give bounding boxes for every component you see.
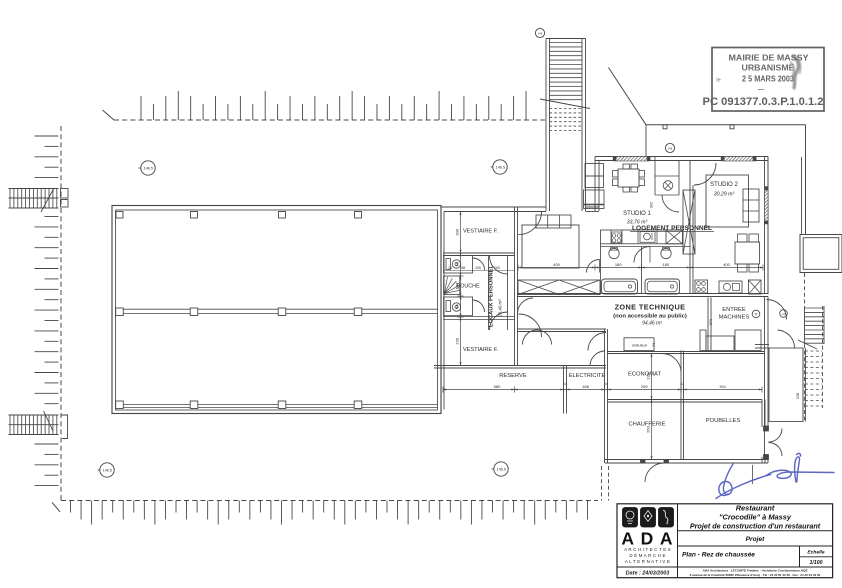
svg-text:ADA Architecture - LECOMTE Fré: ADA Architecture - LECOMTE Frédéric - Ar…: [701, 569, 808, 573]
entry wc circle: [663, 181, 673, 191]
ADA logo stamp icon 3: [659, 508, 674, 528]
svg-text:146.5: 146.5: [496, 166, 505, 170]
washbasin 1: [609, 248, 619, 258]
svg-text:146.5: 146.5: [497, 468, 506, 472]
svg-text:74: 74: [652, 343, 656, 347]
washbasin 2: [661, 248, 671, 258]
douche fan lines: [445, 290, 462, 294]
right stair dashed sides: [822, 306, 824, 408]
wall below wc2: [443, 316, 515, 318]
wardrobe with X: [683, 190, 695, 254]
svg-text:Plan - Rez de chaussée: Plan - Rez de chaussée: [682, 552, 755, 559]
svg-text:259: 259: [641, 384, 648, 389]
svg-text:D E M A R C H E: D E M A R C H E: [629, 553, 665, 558]
svg-text:14: 14: [604, 382, 608, 386]
svg-text:98: 98: [461, 266, 465, 270]
title block divider vertical: [677, 504, 679, 578]
stair treads solid: [550, 42, 583, 44]
stamp small dash: [758, 89, 764, 91]
circled symbol entree machines: [752, 310, 760, 318]
economat right wall: [680, 351, 682, 461]
svg-text:94,46 m²: 94,46 m²: [642, 321, 662, 327]
right stair dashed treads: [805, 350, 822, 352]
vestibule arc bottom: [490, 312, 508, 330]
benchmark circle 146.5 at 148,168: [141, 161, 155, 175]
site corner diagonal top-left: [103, 110, 115, 120]
reserve top wall: [434, 365, 606, 367]
corridor dashed opening: [522, 329, 552, 331]
svg-text:180: 180: [662, 262, 669, 267]
studio2 door arc: [694, 163, 716, 185]
rooms block left wall: [440, 207, 442, 414]
entry cell walls: [654, 157, 656, 196]
svg-text:"Crocodile" à Massy: "Crocodile" à Massy: [719, 513, 792, 522]
parking ticks left column: [35, 135, 59, 137]
svg-text:URBANISME: URBANISME: [742, 64, 796, 73]
svg-text:74: 74: [455, 262, 460, 267]
right walkway outer border: [802, 348, 804, 422]
hall middle beam: [116, 308, 438, 310]
wall segment left of door2: [755, 344, 769, 346]
hall middle beam posts: [116, 308, 124, 316]
hall bottom beam posts: [116, 401, 124, 409]
svg-text:VESTIAIRE F.: VESTIAIRE F.: [463, 229, 499, 235]
svg-text:14: 14: [563, 382, 567, 386]
plot diagonal line: [609, 68, 647, 125]
plot connector vertical: [645, 125, 647, 157]
svg-text:300: 300: [455, 228, 460, 235]
svg-text:146.5: 146.5: [144, 167, 153, 171]
svg-text:ZONE TECHNIQUE: ZONE TECHNIQUE: [615, 303, 686, 312]
window hatch top wall west: [616, 157, 647, 162]
svg-text:74: 74: [455, 304, 460, 309]
corridor door arc east: [588, 333, 606, 351]
hall outer wall: [112, 206, 441, 414]
stair strip walls: [545, 39, 547, 212]
corridor south wall: [517, 328, 606, 330]
zone door arc on block wall: [518, 298, 534, 314]
crosswalk diagonal upper: [41, 188, 54, 212]
right stair solid treads: [804, 306, 806, 344]
plot line tick 1: [663, 125, 667, 129]
crosswalk diagonal lower: [44, 411, 54, 431]
short line below poubelles wall: [752, 465, 754, 484]
stamp border: [712, 48, 824, 112]
svg-text:2 5 MARS 2003: 2 5 MARS 2003: [742, 75, 795, 84]
mairie stamp group: [703, 48, 825, 112]
electricite right wall: [604, 329, 606, 463]
svg-text:ELECTRICITE: ELECTRICITE: [569, 373, 606, 379]
douche cell: [444, 276, 460, 294]
title block divider below projet: [678, 545, 833, 547]
svg-text:302: 302: [650, 202, 654, 208]
south wall of south rooms: [605, 459, 768, 461]
x-box kitchen studio1: [666, 230, 683, 244]
ADA logo stamp icon 1: [623, 508, 638, 528]
benchmark small circle top of stairs: [535, 28, 544, 37]
studio2 bed: [706, 175, 749, 227]
title block outer border: [617, 504, 833, 578]
svg-text:STUDIO 2: STUDIO 2: [710, 182, 738, 188]
svg-text:14: 14: [681, 382, 685, 386]
vestibule arc top: [490, 256, 508, 274]
site dashed vertical pair near chaufferie: [601, 466, 603, 501]
terrace box top-right: [800, 235, 842, 273]
kitchen counter studio1: [601, 230, 684, 244]
dimension line horizontal south rooms: [443, 389, 762, 391]
svg-text:VESTIAIRE F.: VESTIAIRE F.: [463, 347, 499, 353]
window jamb marks right wall: [765, 187, 769, 190]
svg-text:DOUCHE: DOUCHE: [456, 284, 480, 290]
studio2 chairs: [738, 234, 748, 242]
title block divider above fine print: [617, 566, 833, 568]
svg-text:100: 100: [455, 282, 460, 289]
svg-text:Projet de construction d'un re: Projet de construction d'un restaurant: [690, 522, 821, 531]
bath door arc 1: [587, 260, 600, 273]
title block divider below project title: [678, 530, 833, 532]
stair treads dashed: [550, 108, 583, 110]
studio1 table: [618, 169, 639, 187]
svg-text:A R C H I T E C T E S: A R C H I T E C T E S: [624, 547, 671, 552]
svg-text:146: 146: [538, 32, 543, 36]
building top wall segment east of stairs: [586, 206, 600, 208]
parking ticks bottom row: [70, 501, 72, 513]
svg-text:Restaurant: Restaurant: [736, 504, 775, 513]
svg-text:580: 580: [494, 384, 501, 389]
svg-text:228: 228: [796, 393, 800, 399]
window jamb marks top wall: [613, 157, 616, 162]
bath partition wall: [600, 246, 690, 248]
svg-text:100: 100: [475, 266, 481, 270]
window hatch top wall east: [724, 157, 753, 162]
svg-text:A L T E R N A T I V E: A L T E R N A T I V E: [625, 559, 670, 564]
apartment left wall: [594, 157, 596, 212]
vestiaire2 door arc: [519, 314, 542, 337]
svg-text:180: 180: [615, 262, 622, 267]
stair break line: [540, 99, 590, 109]
svg-text:301: 301: [719, 384, 726, 389]
poubelles door jambs: [764, 426, 769, 431]
onduleur box: [624, 338, 654, 351]
bathtub 2: [645, 279, 680, 294]
site boundary left dashed line: [60, 126, 62, 500]
plot line tick 2: [730, 125, 734, 129]
small circle 4.96: [780, 310, 788, 318]
hall top row posts: [116, 212, 123, 219]
rooms block right wall: [514, 207, 516, 366]
studio2 stove box: [695, 280, 708, 293]
economat door arc: [662, 354, 681, 373]
benchmark circle 146.5 at 501,469: [494, 462, 508, 476]
bath divider wall: [641, 247, 643, 294]
toilet 2: [446, 301, 451, 312]
vestiaire1 door arc: [519, 212, 542, 235]
apartment right wall: [764, 157, 766, 295]
svg-text:T: T: [755, 312, 758, 317]
studio2 table: [735, 242, 760, 264]
dimension line small row in vestiaire: [443, 270, 515, 272]
plot top line to right: [646, 124, 806, 126]
apartment bottom wall: [517, 293, 768, 295]
benchmark small circle apartment: [665, 143, 674, 152]
locaux vestibule walls: [488, 256, 490, 331]
svg-text:400: 400: [723, 262, 730, 267]
svg-text:POUBELLES: POUBELLES: [706, 418, 741, 424]
dimension line vertical through vestiaires: [460, 212, 462, 366]
studio1 bed: [522, 225, 579, 268]
poubelles right wall: [761, 400, 763, 428]
svg-text:ENTREE: ENTREE: [722, 307, 746, 313]
window hatch right wall: [765, 190, 769, 221]
studio2 counter with oven: [719, 281, 742, 293]
site boundary bottom dashed line: [61, 500, 598, 502]
apartment top wall: [595, 156, 768, 158]
ADA logo stamp icon 2: [641, 508, 656, 528]
svg-text:120: 120: [646, 372, 651, 379]
entree machines left wall: [707, 298, 709, 352]
chaufferie door arc: [645, 463, 664, 482]
svg-text:146: 146: [668, 147, 673, 151]
stove dots studio1: [612, 232, 622, 243]
svg-text:MACHINES: MACHINES: [719, 315, 750, 321]
building top wall segment west of stairs: [441, 206, 546, 208]
stamp fingerprint smudge: [790, 56, 801, 89]
machine blocks: [700, 330, 706, 351]
svg-text:14: 14: [448, 266, 452, 270]
site boundary top dashed line: [114, 119, 545, 121]
svg-text:LOCAUX PERSONNEL: LOCAUX PERSONNEL: [489, 264, 495, 327]
wc1 door arc: [473, 258, 485, 270]
svg-text:271: 271: [709, 319, 713, 325]
entree machines door arc 1: [767, 300, 787, 320]
crosswalk hatch strip lower-left: [9, 414, 59, 416]
svg-text:400: 400: [553, 262, 560, 267]
svg-text:188: 188: [582, 384, 589, 389]
svg-text:(non accessible au public): (non accessible au public): [613, 314, 687, 320]
svg-text:STUDIO 1: STUDIO 1: [623, 211, 651, 217]
svg-text:le: le: [716, 78, 720, 84]
studio2 x-box: [749, 280, 762, 294]
svg-text:A D A: A D A: [621, 529, 673, 549]
hall inner wall: [116, 210, 438, 410]
title block echelle cell: [799, 546, 801, 567]
studio1 chairs: [613, 171, 619, 178]
bathtub 1: [602, 279, 638, 294]
svg-text:Echelle: Echelle: [807, 550, 824, 556]
svg-text:8 avenue de la Créativité 5965: 8 avenue de la Créativité 59650 Villeneu…: [690, 573, 821, 577]
x-band zone technique: [518, 280, 600, 295]
benchmark circle 146.5 at 500,167: [493, 160, 507, 174]
dimension line horizontal apartment: [518, 267, 763, 269]
wc cell 1: [444, 256, 473, 274]
building right wall south part: [764, 297, 766, 461]
svg-text:onduleur: onduleur: [632, 343, 648, 348]
reserve double door arcs: [523, 330, 538, 345]
gate posts right of upper crosswalk: [61, 189, 69, 199]
svg-text:30,29 m²: 30,29 m²: [714, 192, 735, 198]
svg-text:Projet: Projet: [746, 536, 765, 543]
parking ticks top row: [140, 96, 142, 120]
entry door arc: [662, 195, 679, 212]
economat top wall: [607, 351, 765, 353]
hall bottom beam: [116, 404, 438, 406]
bath west wall: [600, 244, 602, 294]
gate post right of lower crosswalk: [61, 415, 68, 439]
svg-text:1/100: 1/100: [810, 560, 823, 566]
partition between studios: [689, 161, 691, 294]
site corner diagonal bottom-left: [52, 502, 60, 512]
electricite door arc: [590, 351, 605, 366]
right plot dashed vertical upper: [804, 273, 806, 306]
right walkway rectangle: [769, 348, 803, 422]
svg-text:230: 230: [455, 337, 460, 344]
crosswalk hatch strip upper-left: [9, 188, 59, 190]
wc cell 2: [444, 297, 473, 316]
right stair break line: [798, 340, 817, 349]
studio2 bed cushions: [743, 189, 759, 222]
poubelles double door arcs: [769, 429, 783, 443]
bath door arc 2: [634, 247, 650, 263]
sink studio1: [640, 232, 655, 243]
vestiaire top room bottom wall: [443, 252, 515, 254]
svg-text:PC 091377.0.3.P.1.0.1.2: PC 091377.0.3.P.1.0.1.2: [703, 96, 824, 108]
svg-text:Date : 24/03/2003: Date : 24/03/2003: [626, 571, 669, 577]
entree machines door arc 2: [778, 330, 795, 348]
reserve-electricite wall: [563, 366, 565, 414]
chaufferie top wall: [607, 399, 762, 401]
svg-text:260: 260: [646, 425, 651, 432]
svg-text:100: 100: [494, 266, 500, 270]
toilet 1: [446, 259, 451, 270]
studio1 bed cushions: [536, 215, 571, 228]
chaufferie door jambs: [641, 460, 646, 464]
kitchen tower column studio1: [585, 164, 604, 177]
wc2 door arc: [473, 300, 485, 312]
signature blue ink: [716, 453, 834, 498]
svg-text:RESERVE: RESERVE: [499, 373, 527, 379]
plot right wall upper: [805, 125, 807, 235]
dimension line vertical economat-chaufferie: [651, 354, 653, 460]
svg-text:33,76 m²: 33,76 m²: [627, 220, 648, 226]
svg-text:146.5: 146.5: [103, 469, 112, 473]
benchmark circle 146.5 at 107,470: [100, 463, 114, 477]
